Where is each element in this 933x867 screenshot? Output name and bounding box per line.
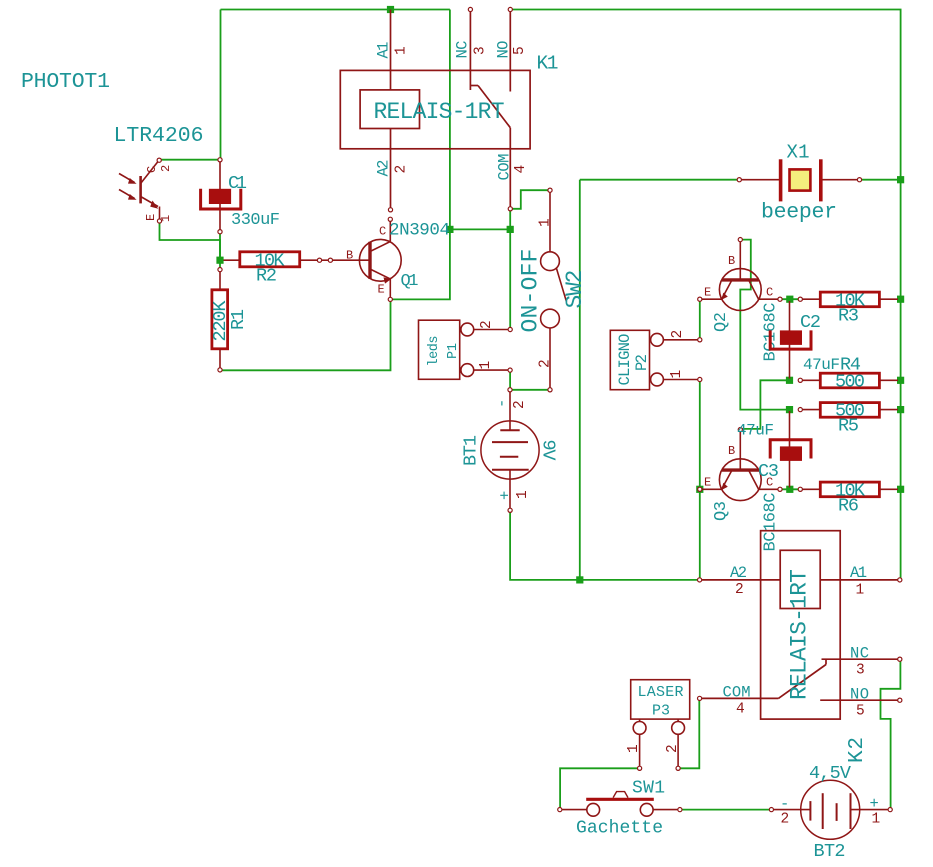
svg-text:1: 1 — [394, 46, 410, 55]
svg-text:A2: A2 — [375, 160, 393, 177]
svg-text:B: B — [728, 444, 735, 458]
svg-text:beeper: beeper — [761, 201, 837, 225]
svg-text:Q1: Q1 — [401, 272, 419, 291]
svg-text:P1: P1 — [446, 343, 461, 359]
svg-text:4: 4 — [513, 165, 529, 174]
junction R4 left / C2 bottom — [786, 377, 793, 384]
junction top A1 — [387, 6, 394, 13]
svg-text:2: 2 — [159, 165, 173, 172]
wire SW1 right to BT2 minus — [682, 809, 770, 811]
wire photo collector — [159, 159, 219, 161]
capacitor C2 — [770, 301, 811, 379]
svg-text:C: C — [145, 166, 159, 173]
svg-text:SW2: SW2 — [562, 270, 588, 309]
svg-text:+: + — [870, 795, 879, 813]
svg-text:2: 2 — [394, 165, 410, 174]
switch SW2 ON-OFF — [541, 188, 567, 392]
wire COM junction down to P1 pin2 — [509, 229, 511, 328]
svg-text:A1: A1 — [850, 564, 867, 582]
svg-text:1: 1 — [872, 812, 881, 828]
svg-text:4,5V: 4,5V — [809, 763, 851, 784]
svg-text:R4: R4 — [840, 355, 861, 376]
svg-text:X1: X1 — [787, 142, 810, 164]
wire beeper right — [861, 179, 901, 181]
svg-text:B: B — [346, 249, 353, 263]
svg-text:C: C — [766, 286, 773, 300]
wire top-left vertical — [220, 10, 222, 160]
svg-text:Q2: Q2 — [712, 312, 731, 332]
junction x449 y229 — [446, 226, 453, 233]
wire C1 bottom to junction — [219, 233, 221, 258]
svg-text:R3: R3 — [838, 306, 859, 327]
svg-text:BT1: BT1 — [461, 435, 482, 466]
wire R1 bottom rail — [220, 301, 391, 372]
svg-text:C2: C2 — [800, 312, 821, 333]
svg-text:-: - — [780, 795, 789, 813]
wire beeper left — [580, 179, 738, 181]
svg-text:47uF: 47uF — [737, 422, 774, 440]
junction R5 right — [897, 406, 904, 413]
svg-text:2: 2 — [670, 330, 686, 339]
wire COM down — [509, 210, 511, 229]
wire Q3 base cross-coupling to R4 node — [742, 380, 790, 429]
svg-text:1: 1 — [856, 583, 865, 599]
wire K1 vertical x=449.9 — [449, 10, 451, 230]
wire K2 A2 from rail — [697, 579, 699, 581]
junction bottom rail x579 — [576, 576, 583, 583]
svg-text:BC168C: BC168C — [762, 493, 781, 552]
relay K2 — [698, 531, 902, 719]
svg-text:ON-OFF: ON-OFF — [518, 249, 544, 333]
transistor Q1 2N3904 — [332, 217, 401, 301]
wire P2 pin1 to Q3 emitter to rail — [699, 381, 701, 580]
svg-text:Q3: Q3 — [712, 501, 731, 521]
wire BT1 plus down to bottom rail — [510, 512, 698, 580]
junction R3 right — [897, 296, 904, 303]
junction R5 left / C3 top — [786, 406, 793, 413]
wire long vertical x=579.8 beeper to rail — [579, 180, 581, 580]
beeper X1 — [737, 159, 861, 201]
wire COM step to SW2 pin1 — [512, 190, 549, 209]
junction x510 y229 — [507, 226, 514, 233]
svg-text:SW1: SW1 — [632, 779, 665, 799]
wire Q1 emitter link — [392, 229, 450, 299]
svg-text:P3: P3 — [652, 703, 670, 720]
svg-text:A2: A2 — [730, 564, 747, 582]
transistor Q3 BC168C — [698, 428, 803, 501]
svg-text:1: 1 — [669, 370, 685, 379]
svg-text:NO: NO — [495, 41, 513, 59]
svg-text:NC: NC — [454, 41, 472, 59]
svg-text:B: B — [728, 254, 735, 268]
resistor R6 — [802, 482, 898, 497]
wire BT1 minus row to SW2 pin2 — [512, 389, 549, 391]
svg-text:R1: R1 — [228, 309, 249, 330]
svg-text:1: 1 — [478, 361, 494, 370]
resistor R5 — [798, 403, 898, 418]
wire junction row y=229.4 — [450, 228, 510, 230]
wire K2 NC to BT2 plus — [881, 661, 901, 808]
wire top horizontal left — [221, 9, 450, 11]
phototransistor LTR4206 — [119, 158, 162, 223]
svg-text:2: 2 — [538, 359, 554, 368]
svg-text:P2: P2 — [633, 354, 651, 371]
capacitor C3 — [770, 411, 811, 488]
svg-text:1: 1 — [626, 744, 642, 753]
svg-text:-: - — [493, 399, 511, 408]
relay K1 — [340, 7, 530, 212]
svg-text:A1: A1 — [375, 42, 393, 59]
connector P2 CLIGNO — [610, 330, 702, 389]
junction R6 right — [897, 486, 904, 493]
svg-text:Gachette: Gachette — [576, 819, 663, 839]
svg-text:330uF: 330uF — [231, 211, 280, 230]
svg-text:4: 4 — [736, 702, 745, 718]
svg-text:E: E — [144, 214, 158, 221]
svg-text:RELAIS-1RT: RELAIS-1RT — [787, 569, 813, 700]
svg-text:5: 5 — [856, 704, 865, 720]
wire P3 pin1 to SW1 left — [560, 768, 638, 808]
svg-text:BT2: BT2 — [814, 841, 846, 862]
svg-text:leds: leds — [427, 336, 442, 367]
svg-text:2: 2 — [665, 744, 681, 753]
svg-text:1: 1 — [538, 218, 554, 227]
svg-text:R6: R6 — [838, 496, 859, 517]
svg-text:2: 2 — [781, 812, 790, 828]
svg-text:+: + — [497, 491, 515, 500]
svg-text:2: 2 — [479, 320, 495, 329]
svg-text:K1: K1 — [537, 53, 559, 75]
wire P1 pin1 to BT1 minus — [509, 372, 511, 389]
capacitor C1 — [201, 158, 241, 234]
svg-text:CLIGNO: CLIGNO — [616, 334, 634, 386]
svg-text:LTR4206: LTR4206 — [114, 124, 204, 148]
resistor R2 — [224, 252, 333, 267]
svg-text:COM: COM — [496, 154, 514, 181]
svg-text:3: 3 — [856, 663, 865, 679]
svg-text:E: E — [704, 286, 711, 300]
wire photo emitter to C1 bottom node — [160, 223, 221, 258]
svg-text:NO: NO — [850, 686, 869, 704]
wire junction to R1 top — [219, 262, 221, 268]
junction Q2 collector — [786, 296, 793, 303]
transistor Q2 BC168C — [698, 238, 803, 311]
junction C1-R2-R1 node — [216, 257, 223, 264]
svg-text:2: 2 — [735, 582, 744, 598]
resistor R4 — [798, 373, 898, 388]
svg-text:3: 3 — [473, 46, 489, 55]
svg-text:1: 1 — [515, 490, 531, 499]
svg-text:R5: R5 — [838, 416, 859, 437]
svg-text:2N3904: 2N3904 — [389, 221, 450, 241]
resistor R1 — [212, 268, 228, 373]
svg-text:1: 1 — [159, 215, 173, 222]
junction R4 right — [897, 377, 904, 384]
svg-text:E: E — [704, 476, 711, 490]
wire Q3 collector to R6 node — [782, 488, 799, 490]
junction Q3 emitter — [696, 486, 703, 493]
resistor R3 — [802, 292, 898, 307]
svg-text:R2: R2 — [256, 266, 277, 287]
svg-text:C: C — [379, 225, 386, 239]
wire top horizontal right to right bus — [512, 10, 901, 579]
svg-text:C3: C3 — [758, 461, 779, 482]
junction Q3 collector / R6 left — [786, 486, 793, 493]
svg-text:5: 5 — [512, 46, 528, 55]
wire Q2 collector to R3 node — [782, 298, 799, 300]
wire Q2 emitter to P2 pin2 — [699, 301, 701, 339]
junction beeper right bus — [897, 176, 904, 183]
svg-text:PHOTOT1: PHOTOT1 — [21, 70, 110, 94]
battery BT1 9V — [481, 388, 539, 513]
svg-text:9V: 9V — [538, 440, 559, 461]
wire P3 pin2 to K2 COM — [680, 700, 700, 768]
svg-text:2: 2 — [512, 400, 528, 409]
svg-text:COM: COM — [723, 684, 751, 702]
svg-text:LASER: LASER — [638, 684, 684, 701]
wire Q2 base cross-coupling to R5 node — [740, 240, 789, 410]
svg-text:K2: K2 — [846, 737, 869, 763]
svg-text:E: E — [378, 283, 385, 297]
svg-text:RELAIS-1RT: RELAIS-1RT — [374, 99, 505, 125]
svg-text:NC: NC — [850, 645, 869, 663]
switch SW1 Gachette — [558, 792, 682, 817]
connector P3 LASER — [631, 680, 690, 771]
battery BT2 4,5V — [769, 780, 892, 839]
connector P1 leds — [419, 320, 513, 379]
svg-text:C1: C1 — [228, 173, 247, 194]
